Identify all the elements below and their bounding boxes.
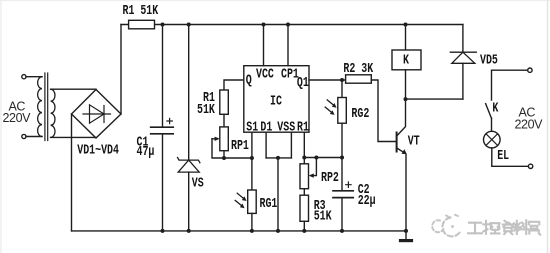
wire: VCC pin: [263, 25, 265, 66]
resistor R2 (box): [346, 75, 372, 83]
svg-text:RG2: RG2: [351, 107, 369, 122]
wire: VS upper lead: [188, 25, 190, 161]
RP2 wiper arrow: [309, 173, 314, 177]
capacitor C2 bottom plate: [333, 197, 353, 199]
svg-text:IC: IC: [270, 95, 282, 110]
junction dot rail/C1: [161, 23, 165, 27]
potentiometer RP1 (box): [220, 127, 229, 151]
transformer T primary winding: [38, 77, 42, 137]
wire: VD5 anode lead: [462, 63, 464, 99]
wire: secondary bottom to bridge: [51, 136, 96, 138]
wire: lamp to lower terminal: [492, 148, 529, 166]
svg-text:VSS: VSS: [277, 120, 295, 135]
junction dot R1 pin net: [302, 156, 306, 160]
wire: VT emitter to ground rail: [405, 154, 407, 231]
wire: upper mains lead: [492, 70, 528, 100]
svg-text:VD1~VD4: VD1~VD4: [77, 143, 119, 158]
mains terminal lower right: [528, 164, 532, 168]
wire: D1 pin drop: [265, 132, 267, 158]
wire: bridge + output up to rail: [120, 25, 122, 115]
VT emitter arrowhead: [402, 149, 407, 154]
wire: CP1 pin: [287, 25, 289, 66]
junction dot emitter/bottom rail: [404, 229, 408, 233]
capacitor C2 top plate: [333, 190, 353, 192]
transistor VT emitter: [397, 148, 405, 153]
wire: VD5 cathode lead from rail: [462, 25, 464, 53]
svg-text:RG1: RG1: [260, 197, 278, 212]
RG1 light arrow 2: [235, 200, 241, 205]
transformer T secondary winding: [51, 89, 55, 137]
svg-text:R1 51K: R1 51K: [123, 4, 159, 19]
junction dot RP2 wiper tap: [314, 156, 318, 160]
wire: RP2 wiper drop: [312, 158, 317, 176]
zener VS cathode bar: [178, 158, 200, 163]
svg-text:Q1: Q1: [297, 76, 309, 91]
svg-text:D1: D1: [260, 120, 272, 135]
C1 plus sign: [167, 118, 172, 123]
wire: R1v top to IC Q pin: [224, 80, 244, 90]
wire: secondary top to bridge: [51, 88, 96, 90]
wire: upper AC lead: [26, 76, 42, 78]
lamp EL circle: [484, 131, 501, 148]
diode VD5 triangle: [452, 52, 475, 63]
junction dot rail/relay K: [404, 23, 408, 27]
resistor R3 (box): [300, 195, 309, 221]
bridge rectifier VD1~VD4 diamond: [72, 90, 122, 139]
bridge inner diode triangle: [90, 105, 105, 123]
transistor VT base bar: [396, 133, 398, 152]
wire: R1 pin net horizontal: [304, 157, 342, 159]
svg-text:K: K: [492, 102, 499, 117]
wire: R1 pin drop to RP2: [303, 132, 305, 164]
mains terminal upper right: [528, 68, 532, 72]
wire: RG2 top lead: [341, 80, 343, 98]
relay coil K (box): [392, 50, 421, 70]
svg-text:VS: VS: [192, 177, 204, 192]
wire: D1-VSS link: [266, 157, 291, 159]
svg-text:VCC: VCC: [256, 68, 274, 83]
IC box: [244, 66, 309, 133]
svg-text:220V: 220V: [3, 111, 32, 125]
watermark text 工控资料窝: [468, 220, 540, 234]
transistor VT collector: [397, 99, 406, 136]
ground stub: [405, 231, 407, 239]
watermark logo: [432, 215, 460, 237]
svg-text:51K: 51K: [314, 209, 333, 224]
junction dot at bottom rail: [276, 229, 280, 233]
junction dot VS/bottom rail: [187, 229, 191, 233]
zener VS triangle: [178, 160, 199, 172]
wire: RP2 to R3: [303, 189, 305, 196]
capacitor C1 top plate: [151, 126, 174, 128]
svg-text:Q: Q: [246, 74, 252, 89]
svg-text:51K: 51K: [197, 103, 216, 118]
svg-text:RP1: RP1: [231, 139, 249, 154]
RG1 light arrow 1: [237, 193, 243, 198]
transformer core bar right: [47, 73, 49, 141]
AC source terminal lower: [22, 134, 26, 138]
svg-text:EL: EL: [497, 149, 509, 164]
svg-text:R1: R1: [297, 120, 309, 135]
photoresistor RG1 (box): [248, 190, 257, 213]
RP1 wiper arrow: [212, 138, 217, 140]
wire: D1/VSS net to ground rail: [277, 158, 279, 231]
wire: IC Q1 out to R2: [309, 79, 346, 81]
faint page border top: [0, 0, 550, 2]
junction dot R3/bottom rail: [302, 229, 306, 233]
svg-text:47µ: 47µ: [137, 145, 155, 160]
wire: R3 bottom: [303, 221, 305, 231]
wire: lower AC lead: [26, 136, 42, 138]
wire: RP1 bottom: [223, 151, 225, 158]
wire: RP1 wiper loop: [212, 139, 252, 158]
junction dot relay/VT collector/VD5: [404, 97, 408, 101]
wire: RG1 bottom: [251, 213, 253, 231]
wire: C2 upper lead: [341, 158, 343, 191]
wire: C1 lower lead: [162, 135, 164, 231]
resistor R1 top (box on rail): [129, 20, 155, 29]
transformer core bar left: [44, 73, 46, 141]
capacitor C1 bottom plate: [151, 133, 174, 135]
RG2 light arrow 1: [327, 100, 333, 105]
faint page border left: [0, 0, 2, 253]
wire: switch to lamp: [491, 118, 493, 131]
svg-text:VD5: VD5: [480, 53, 498, 68]
wire: VSS pin drop: [290, 132, 292, 158]
wire: relay coil bottom lead: [405, 70, 407, 99]
RG2 light arrow 2: [325, 107, 331, 112]
junction dot wiper wire / S1 line: [250, 156, 254, 160]
svg-text:S1: S1: [246, 120, 258, 135]
svg-text:R2 3K: R2 3K: [343, 62, 374, 77]
wire: VS lower lead: [188, 172, 190, 231]
svg-text:22µ: 22µ: [358, 194, 376, 209]
wire: R2 to VT base: [371, 80, 396, 142]
node: top +V rail: [121, 24, 463, 26]
svg-text:VT: VT: [408, 135, 420, 150]
wire: RG2 bottom lead: [341, 123, 343, 157]
svg-text:RP2: RP2: [321, 171, 339, 186]
wire: relay coil top lead: [405, 25, 407, 51]
junction dot D1/VSS net: [276, 156, 280, 160]
svg-text:220V: 220V: [515, 117, 544, 131]
junction dot net/RG2-C2: [340, 156, 344, 160]
bridge inner diode cathode bar: [103, 106, 105, 123]
node: bottom 0V rail: [72, 230, 407, 232]
C2 plus sign: [346, 182, 351, 187]
potentiometer RP2 (box): [300, 164, 309, 189]
junction dot rail/VS: [187, 23, 191, 27]
wire: C2 lower lead: [341, 198, 343, 231]
junction dot C1/bottom rail: [161, 229, 165, 233]
resistor R1 vertical (box): [220, 90, 229, 114]
wire: R1v to RP1: [223, 114, 225, 127]
junction dot rail/CP1 pin: [286, 23, 290, 27]
junction dot RG1/bottom rail: [250, 229, 254, 233]
photoresistor RG2 (box): [338, 98, 347, 124]
wire: junction to VD5 anode: [406, 98, 463, 100]
wire: S1 pin down to RG1: [251, 132, 253, 190]
junction dot RP1 bottom: [222, 156, 226, 160]
wire: C1 upper lead: [162, 25, 164, 127]
ground symbol: [401, 239, 412, 242]
junction dot Q1/RG2: [340, 78, 344, 82]
bridge inner diode lead: [83, 113, 111, 115]
switch K blade: [486, 104, 492, 119]
diode VD5 cathode bar: [450, 51, 476, 53]
junction dot rail/VCC pin: [262, 23, 266, 27]
junction dot C2/bottom rail: [340, 229, 344, 233]
wire: bridge - output down to rail: [71, 114, 73, 231]
faint page border right: [547, 0, 549, 253]
AC source terminal upper: [22, 75, 26, 79]
label AC 220V left: [0, 0, 1, 1]
lamp EL cross: [486, 134, 498, 146]
svg-text:K: K: [403, 54, 410, 69]
